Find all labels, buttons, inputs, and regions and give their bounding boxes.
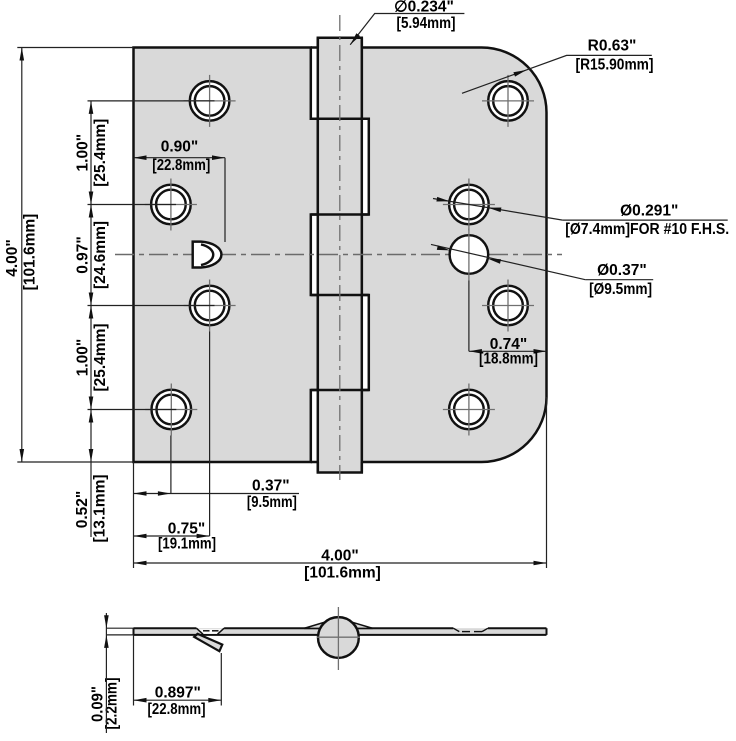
bottom extension line bbox=[17, 461, 133, 463]
side view right countersink notch bbox=[453, 628, 488, 631]
knuckle joint line 1 bbox=[311, 118, 369, 121]
screw hole R3 bbox=[482, 280, 534, 332]
screw hole L3 bbox=[184, 280, 236, 332]
svg-text:0.52": 0.52" bbox=[74, 491, 91, 529]
dim 0.09in thickness bbox=[104, 613, 133, 733]
svg-text:Ø0.291": Ø0.291" bbox=[620, 202, 678, 219]
svg-text:R0.63": R0.63" bbox=[588, 38, 637, 55]
overall height dim line 4.00in bbox=[20, 48, 25, 463]
side view security stud tab bbox=[194, 634, 222, 651]
svg-text:[101.6mm]: [101.6mm] bbox=[21, 214, 38, 291]
screw hole L2 bbox=[145, 179, 197, 231]
security stud (D shape) bbox=[193, 242, 222, 268]
barrel knuckle column fill bbox=[318, 38, 362, 473]
svg-text:0.37": 0.37" bbox=[252, 477, 290, 494]
svg-text:1.00": 1.00" bbox=[74, 134, 91, 172]
side view barrel circle bbox=[318, 617, 359, 658]
side view leaf bar bbox=[134, 628, 547, 635]
screw hole R2 bbox=[443, 179, 495, 231]
svg-text:4.00": 4.00" bbox=[321, 547, 359, 564]
svg-text:[Ø7.4mm]FOR #10 F.H.S.: [Ø7.4mm]FOR #10 F.H.S. bbox=[565, 221, 729, 238]
knuckle joint line 2 bbox=[311, 213, 369, 216]
dim 0.897in stud position bbox=[134, 635, 222, 706]
horizontal centerline bbox=[115, 254, 562, 256]
leader plain hole dia 0.37 bbox=[431, 244, 653, 279]
screw hole R4 bbox=[443, 384, 495, 436]
svg-text:[R15.90mm]: [R15.90mm] bbox=[576, 56, 654, 73]
svg-text:0.897": 0.897" bbox=[155, 684, 201, 701]
svg-text:[25.4mm]: [25.4mm] bbox=[92, 119, 109, 187]
leader screw hole dia 0.291 bbox=[433, 197, 728, 220]
top extension line bbox=[17, 47, 133, 49]
svg-text:[101.6mm]: [101.6mm] bbox=[304, 564, 381, 581]
svg-text:[22.8mm]: [22.8mm] bbox=[152, 157, 210, 174]
top edge closure over gap bbox=[311, 46, 318, 49]
svg-text:[24.6mm]: [24.6mm] bbox=[92, 221, 109, 289]
dim 4.00in width bbox=[134, 397, 547, 568]
barrel pin top cap bbox=[318, 38, 362, 48]
svg-text:4.00": 4.00" bbox=[4, 239, 21, 277]
svg-text:[9.5mm]: [9.5mm] bbox=[247, 494, 297, 511]
side view left countersink notch bbox=[196, 628, 224, 634]
svg-text:[13.1mm]: [13.1mm] bbox=[91, 474, 108, 542]
dim 0.74in bbox=[469, 281, 547, 354]
knuckle joint line 3 bbox=[311, 294, 369, 297]
row extension line 2 bbox=[88, 204, 177, 206]
leader pin dia 0.234 bbox=[350, 14, 464, 45]
svg-text:1.00": 1.00" bbox=[74, 339, 91, 377]
dim 0.37in bbox=[134, 436, 300, 496]
hinge right leaf plate bbox=[362, 48, 547, 463]
plain hole (0.37in) bbox=[450, 229, 489, 281]
svg-text:[5.94mm]: [5.94mm] bbox=[397, 15, 456, 32]
svg-text:∅0.234": ∅0.234" bbox=[394, 0, 454, 15]
hinge left leaf plate bbox=[134, 48, 318, 463]
row extension line 1 bbox=[88, 100, 215, 102]
svg-text:0.90": 0.90" bbox=[161, 139, 199, 156]
svg-text:[25.4mm]: [25.4mm] bbox=[92, 323, 109, 391]
svg-text:[22.8mm]: [22.8mm] bbox=[148, 701, 206, 718]
screw hole L4 bbox=[145, 384, 197, 436]
side view barrel transition wedges bbox=[304, 622, 326, 629]
screw hole R1 bbox=[482, 75, 534, 127]
row extension line 3 bbox=[88, 305, 215, 307]
svg-text:[18.8mm]: [18.8mm] bbox=[479, 351, 538, 368]
svg-text:[Ø9.5mm]: [Ø9.5mm] bbox=[589, 281, 652, 298]
pin centerline bbox=[339, 15, 341, 480]
hole rows dim line bbox=[89, 101, 94, 537]
leader corner radius R0.63 bbox=[462, 55, 652, 93]
side view barrel crosshair bbox=[337, 607, 339, 670]
svg-text:[19.1mm]: [19.1mm] bbox=[158, 536, 216, 553]
dim 0.90in bbox=[134, 155, 226, 242]
knuckle joint line 4 bbox=[311, 389, 369, 392]
dim 0.75in bbox=[134, 332, 210, 539]
barrel side edges bbox=[317, 38, 320, 473]
svg-text:0.97": 0.97" bbox=[74, 236, 91, 274]
row extension line 4 bbox=[88, 409, 177, 411]
svg-text:Ø0.37": Ø0.37" bbox=[597, 262, 647, 279]
screw hole L1 bbox=[184, 75, 236, 127]
barrel bottom cap bbox=[318, 462, 362, 473]
